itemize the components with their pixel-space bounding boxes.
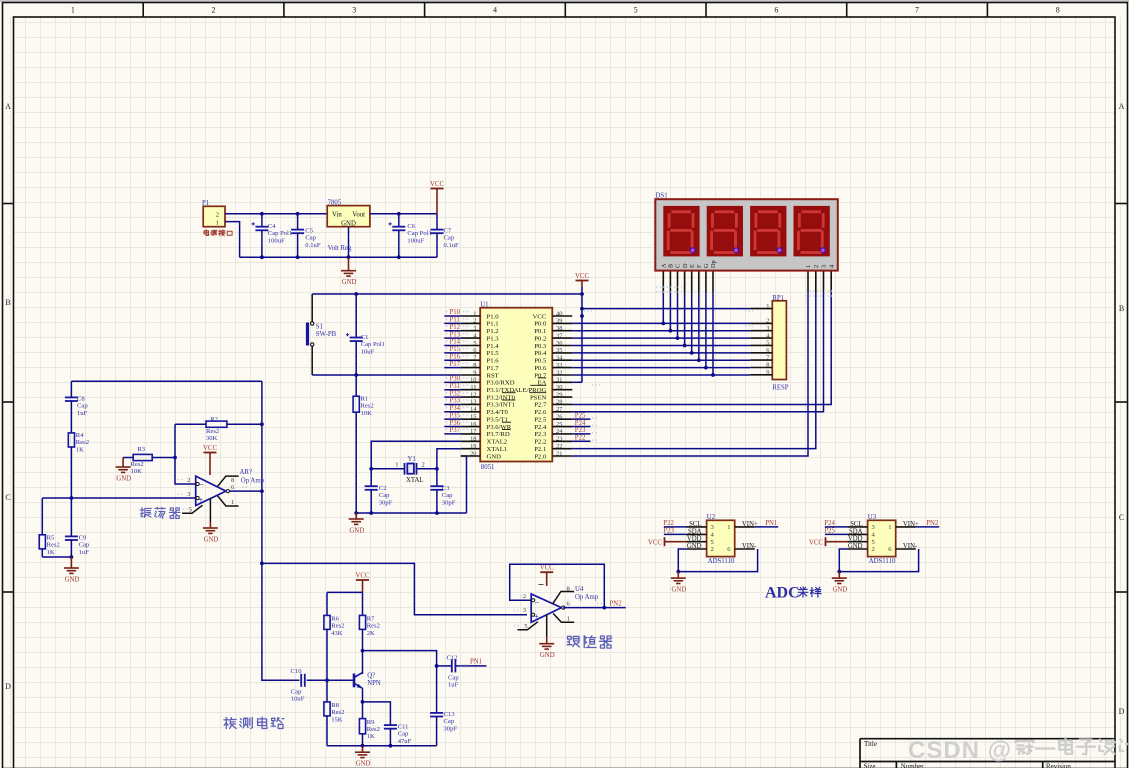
resistor R1 [353,375,374,513]
svg-text:2: 2 [473,318,476,325]
wire R4 to node [70,447,72,498]
svg-text:37: 37 [556,332,563,339]
svg-text:12: 12 [470,391,476,398]
svg-text:GND: GND [672,587,687,594]
svg-text:29: 29 [556,391,562,398]
svg-text:15: 15 [470,413,476,420]
ground rail wire [240,256,437,258]
svg-text:P17: P17 [450,361,461,368]
svg-text:PN2: PN2 [610,601,623,608]
wire net P36 [444,426,461,428]
svg-text:R2: R2 [210,416,218,423]
wire net P24 [572,426,590,428]
svg-text:Res2: Res2 [131,461,144,468]
svg-text:C6: C6 [407,223,415,230]
svg-text:Res2: Res2 [367,726,380,733]
svg-text:C3: C3 [442,485,450,492]
svg-text:Cap: Cap [305,235,316,242]
wire net P16 [444,359,461,361]
wire RST net [312,374,461,376]
svg-text:GND: GND [487,453,502,460]
wire P1 pin2 to 7805 Vin [225,213,327,215]
svg-text:C: C [5,493,10,502]
voltage regulator 7805 [327,200,370,253]
svg-text:Revision: Revision [1046,762,1071,768]
svg-text:R1: R1 [361,396,369,403]
svg-text:F: F [696,264,703,268]
svg-text:P12: P12 [450,324,461,331]
svg-text:SDA: SDA [688,528,702,535]
svg-text:Res2: Res2 [361,403,374,410]
ADC U3 ADS1110 [848,514,919,565]
ground GND (U3) [832,572,847,584]
svg-text:Cap Pol1: Cap Pol1 [407,230,431,237]
svg-text:P22: P22 [575,434,586,441]
capacitor C13 [430,711,457,746]
svg-text:C10: C10 [291,668,303,675]
svg-text:P3.4/T0: P3.4/T0 [487,409,509,416]
svg-text:D: D [1119,707,1125,716]
svg-text:18: 18 [470,436,476,443]
wire net P23 [572,433,590,435]
wire oscillator out to follower [262,563,527,614]
svg-text:C9: C9 [79,535,87,542]
svg-text:ADS1110: ADS1110 [708,558,735,565]
op-amp AR? [182,469,265,514]
wire pin40 VCC [580,292,584,296]
ground GND (U2) [671,572,686,584]
svg-text:1: 1 [766,303,769,310]
svg-text:Dp: Dp [710,260,717,268]
wire display digit 4 select [572,293,831,405]
svg-text:2: 2 [872,546,875,553]
svg-text:RST: RST [487,372,499,379]
wire net P22 [572,440,590,442]
svg-text:P0.0: P0.0 [534,321,547,328]
svg-text:VCC: VCC [540,565,554,572]
wire U4 feedback loop [510,564,605,607]
svg-text:+: + [534,611,539,621]
capacitor C6 [389,214,432,257]
capacitor C9 [65,535,90,558]
svg-text:P1.5: P1.5 [487,350,500,357]
svg-text:VCC: VCC [356,573,370,580]
svg-text:Res2: Res2 [331,623,344,630]
wire net P0.2 [572,337,750,339]
svg-text:1: 1 [395,462,398,469]
svg-text:2: 2 [422,462,425,469]
svg-text:GND: GND [341,220,356,227]
svg-text:ADS1110: ADS1110 [869,558,896,565]
power port VCC (U3) [809,537,848,546]
wire display segment drop C [677,293,679,339]
svg-text:2K: 2K [367,630,375,637]
title block [860,739,1115,771]
ADC U2 ADS1110 [687,514,758,565]
svg-text:Op Amp: Op Amp [575,594,599,601]
svg-text:8051: 8051 [481,464,495,471]
svg-text:C4: C4 [268,223,276,230]
svg-text:P24: P24 [824,520,835,527]
svg-text:C1: C1 [361,334,369,341]
svg-text:P10: P10 [450,309,461,316]
svg-text:A: A [661,263,668,268]
svg-text:P0.5: P0.5 [534,358,547,365]
svg-text:P25: P25 [824,528,835,535]
op-amp U4 follower [518,586,599,630]
svg-text:+: + [199,495,204,505]
wire display segment drop F [698,293,700,361]
svg-text:30pF: 30pF [379,499,393,506]
svg-text:Cap: Cap [291,689,302,696]
resistor R8 [324,680,344,723]
wire net P15 [444,352,461,354]
svg-text:P0.4: P0.4 [534,350,547,357]
connector P1 [202,200,225,227]
svg-text:17: 17 [470,428,477,435]
svg-text:VIN-: VIN- [903,543,918,550]
svg-text:10K: 10K [131,468,143,475]
svg-text:SCL: SCL [850,521,862,528]
label 振荡器 [140,508,151,518]
svg-text:Cap: Cap [79,542,90,549]
grid speckles AR [178,479,184,481]
svg-text:Op Amp: Op Amp [241,477,265,484]
wire net P0.3 [572,344,750,346]
wire net P0.4 [572,352,750,354]
svg-text:100uF: 100uF [407,237,424,244]
svg-text:31: 31 [556,377,562,384]
svg-text:40: 40 [556,310,562,317]
wire U3 SDA net P25 [825,533,848,535]
svg-text:6: 6 [766,347,769,354]
ground GND (bottom) [355,746,370,758]
svg-text:P23: P23 [663,528,674,535]
svg-text:P33: P33 [450,398,461,405]
svg-text:38: 38 [556,325,562,332]
wire U2 SCL net P22 [664,526,687,528]
wire net P11 [444,322,461,324]
svg-text:36: 36 [556,340,562,347]
svg-text:P11: P11 [450,317,460,324]
resistor R2 [175,416,262,442]
svg-text:P1.6: P1.6 [487,358,500,365]
wire net P32 [444,396,461,398]
capacitor C10 [291,668,305,703]
svg-text:15K: 15K [331,716,343,723]
svg-text:VCC: VCC [575,273,589,280]
svg-text:5: 5 [634,6,638,15]
svg-text:VIN-: VIN- [742,543,757,550]
svg-text:Cap: Cap [444,235,455,242]
crystal Y1 XTAL [371,456,437,484]
svg-text:6: 6 [774,6,778,15]
capacitor C3 [430,485,455,513]
svg-text:VCC: VCC [533,313,547,320]
svg-text:10uF: 10uF [361,348,375,355]
ground GND (oscillator) [64,557,79,573]
svg-text:D: D [5,682,11,691]
label 电源接口 [204,230,209,236]
svg-text:8: 8 [1056,6,1060,15]
svg-text:9: 9 [766,369,769,376]
wire net P10 [444,315,461,317]
watermark CSDN [908,737,1129,764]
svg-text:20: 20 [470,450,476,457]
svg-text:1: 1 [473,310,476,317]
svg-text:P37: P37 [450,427,461,434]
wire op-amp output [229,490,262,492]
transistor Q? NPN [354,672,381,688]
wire display digit 3 select [572,293,823,412]
svg-text:1uF: 1uF [448,682,459,689]
junction dots power rail [260,212,264,216]
wire net P0.7 [572,374,750,376]
svg-text:1: 1 [888,524,891,531]
wire oscillator vertical feedback bus [261,381,263,563]
svg-text:39: 39 [556,318,562,325]
svg-text:R7: R7 [367,616,375,623]
svg-text:13: 13 [470,399,476,406]
svg-text:−: − [199,479,204,489]
svg-text:C: C [675,264,682,268]
wire display segment drop H [712,293,714,375]
svg-text:Q?: Q? [367,672,375,679]
svg-text:P35: P35 [450,412,461,419]
svg-text:GND: GND [349,528,364,535]
wire net P34 [444,411,461,413]
svg-text:30K: 30K [206,435,218,442]
wire XTAL2 (pin18) [371,441,461,486]
wire net P0.5 [572,359,750,361]
svg-text:P34: P34 [450,405,461,412]
svg-text:P2.1: P2.1 [534,446,546,453]
svg-text:0.1uF: 0.1uF [305,242,321,249]
ground GND (AR?) [203,498,219,543]
svg-text:21: 21 [556,450,562,457]
wire net P17 [444,367,461,369]
svg-text:R8: R8 [331,702,339,709]
svg-text:Cap: Cap [442,492,453,499]
svg-text:P0.3: P0.3 [534,343,547,350]
power port VCC (top) [430,181,444,214]
wire net P12 [444,330,461,332]
wire down to C10 [262,563,300,680]
svg-text:RESP: RESP [772,384,788,391]
svg-text:Res2: Res2 [206,428,219,435]
svg-text:XTAL1: XTAL1 [487,446,508,453]
svg-text:P23: P23 [575,427,586,434]
capacitor C12 [437,654,487,688]
svg-text:1: 1 [727,524,730,531]
wire RP1 common [582,308,750,310]
svg-text:PSEN: PSEN [530,394,547,401]
svg-text:SW-PB: SW-PB [316,331,337,338]
svg-text:1K: 1K [76,446,84,453]
svg-text:Cap Pol1: Cap Pol1 [361,341,385,348]
svg-text:10K: 10K [361,410,373,417]
label 跟随器 [567,636,579,647]
svg-text:1uF: 1uF [79,549,90,556]
svg-text:Cap: Cap [77,403,88,410]
svg-text:SDA: SDA [849,528,863,535]
svg-text:4: 4 [828,265,835,268]
svg-text:2: 2 [216,211,219,218]
svg-text:P25: P25 [575,412,586,419]
svg-text:Cap: Cap [398,731,409,738]
svg-text:10: 10 [470,377,476,384]
svg-text:A: A [5,102,11,111]
svg-text:A: A [1119,102,1125,111]
svg-text:PN2: PN2 [926,520,939,527]
svg-text:P30: P30 [450,376,461,383]
power port VCC (U2) [648,537,687,546]
svg-text:R6: R6 [331,616,339,623]
svg-text:GND: GND [540,652,555,659]
resistor R7 [359,615,379,637]
wire display segment drop D [684,293,686,346]
svg-text:Cap: Cap [448,674,459,681]
wire collector branch to C12/C13 [363,651,437,713]
wire bottom rail [327,745,437,747]
svg-text:R9: R9 [367,719,375,726]
svg-text:GND: GND [848,543,863,550]
capacitor C5 [291,214,321,257]
wire VCC rail to reset circuit [312,293,582,295]
svg-text:VCC: VCC [203,445,217,452]
svg-text:VCC: VCC [648,539,662,546]
svg-text:1: 1 [71,6,75,15]
wire net P14 [444,344,461,346]
svg-text:43K: 43K [331,630,343,637]
svg-text:P0.1: P0.1 [534,328,546,335]
svg-text:C11: C11 [398,724,409,731]
svg-text:CSDN @: CSDN @ [908,737,1012,764]
svg-text:P1.3: P1.3 [487,335,500,342]
svg-text:1uF: 1uF [77,410,88,417]
wire net P33 [444,403,461,405]
svg-text:2: 2 [813,265,820,268]
svg-text:8: 8 [766,362,769,369]
switch S1 SW-PB [306,294,337,375]
svg-text:P32: P32 [450,390,461,397]
svg-text:B: B [5,298,10,307]
wire U4 output [563,607,625,609]
svg-text:R4: R4 [76,432,84,439]
wire noninverting input net [42,497,195,499]
capacitor C4 [252,214,293,257]
wire crystal ground rail [356,512,466,514]
svg-text:8: 8 [473,362,476,369]
svg-text:P36: P36 [450,420,461,427]
svg-text:XTAL: XTAL [406,477,424,484]
svg-text:27: 27 [556,406,563,413]
svg-text:ADC: ADC [765,585,800,602]
svg-text:30pF: 30pF [442,499,456,506]
svg-text:P1.4: P1.4 [487,343,500,350]
svg-text:28: 28 [556,399,562,406]
wire oscillator top [71,380,262,382]
capacitor C8 [65,381,88,433]
wire inverting input net [175,424,196,484]
svg-text:1: 1 [567,615,570,622]
wire P1 pin1 down to rail [225,222,240,258]
resistor R4 [68,432,89,453]
wire display segment drop G [705,293,707,368]
wire net P0.6 [572,367,750,369]
wire EA pin31 [572,381,582,383]
resistor R5 [39,498,60,557]
svg-text:P0.2: P0.2 [534,335,546,342]
svg-text:35: 35 [556,347,562,354]
svg-text:G: G [703,263,710,268]
wire net P37 [444,433,461,435]
svg-text:P24: P24 [575,420,586,427]
svg-text:2: 2 [711,546,714,553]
svg-text:−: − [535,597,540,607]
wire VCC to R6/R7 [327,591,363,593]
svg-text:24: 24 [556,428,563,435]
svg-text:B: B [1119,304,1124,313]
capacitor C7 [431,214,460,257]
microcontroller U1 8051 [461,301,573,471]
svg-text:P2.3: P2.3 [534,431,547,438]
svg-text:S1: S1 [316,324,323,331]
wire net P25 [572,418,590,420]
label 被测电路 [224,717,236,728]
svg-text:2: 2 [766,318,769,325]
capacitor C11 [384,724,412,746]
svg-text:Cap: Cap [379,492,390,499]
wire U2 SDA net P23 [664,533,687,535]
svg-text:VDD: VDD [687,536,702,543]
resistor R9 [359,719,379,741]
svg-text:C: C [1119,513,1124,522]
wire display segment drop B [669,293,671,331]
svg-text:100uF: 100uF [268,237,285,244]
svg-text:5: 5 [473,340,476,347]
svg-text:25: 25 [556,421,562,428]
svg-text:3: 3 [473,325,476,332]
svg-text:P3.7/RD: P3.7/RD [487,431,510,438]
svg-text:P1.2: P1.2 [487,328,499,335]
svg-text:P2.6: P2.6 [534,409,547,416]
wire R6 to base node [326,629,328,680]
svg-text:P16: P16 [450,353,461,360]
grid speckles U4 [514,610,520,612]
svg-text:1: 1 [216,219,219,226]
wire display digit 1 select [572,293,808,456]
svg-text:Y1: Y1 [408,456,416,463]
svg-text:16: 16 [470,421,476,428]
ground GND (U4) [539,615,555,659]
svg-text:11: 11 [470,384,476,391]
wire net P0.0 [572,322,750,324]
svg-text:PN1: PN1 [470,659,482,666]
svg-text:3: 3 [821,265,828,268]
svg-text:2: 2 [212,6,216,15]
svg-text:NPN: NPN [367,680,381,687]
svg-text:P2.4: P2.4 [534,424,547,431]
svg-text:10uF: 10uF [291,696,305,703]
svg-text:GND: GND [833,587,848,594]
wire emitter down [362,688,364,718]
svg-text:XTAL2: XTAL2 [487,439,508,446]
svg-text:GND: GND [356,761,371,768]
svg-text:1K: 1K [47,549,55,556]
svg-text:P14: P14 [450,339,461,346]
svg-text:33: 33 [556,362,562,369]
